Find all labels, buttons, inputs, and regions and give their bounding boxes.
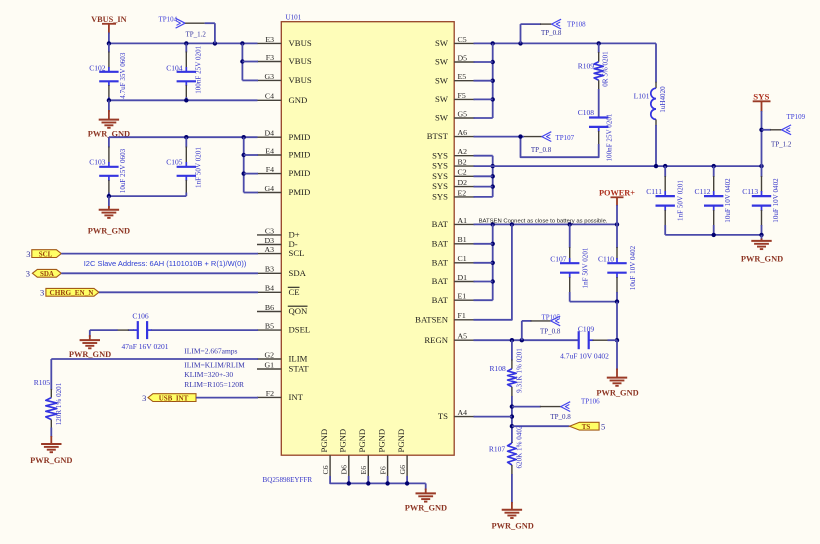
svg-text:TP_0.8: TP_0.8 xyxy=(531,146,552,154)
wire SYS bottom rail xyxy=(665,234,761,236)
wire INT xyxy=(196,397,258,399)
svg-text:R107: R107 xyxy=(489,445,506,454)
svg-text:TP106: TP106 xyxy=(581,397,600,405)
capacitor C110 xyxy=(616,224,618,248)
ground PWR_GND below C110 xyxy=(607,377,627,379)
svg-text:BATSEN Connect as close to bat: BATSEN Connect as close to battery as po… xyxy=(479,219,608,225)
svg-text:3: 3 xyxy=(26,269,30,279)
svg-text:G4: G4 xyxy=(264,184,274,193)
svg-text:KLIM=320+-30: KLIM=320+-30 xyxy=(184,370,233,379)
svg-text:BTST: BTST xyxy=(427,131,449,141)
svg-text:ILIM=KLIM/RLIM: ILIM=KLIM/RLIM xyxy=(184,360,245,369)
svg-text:G5: G5 xyxy=(458,109,468,118)
svg-text:TS: TS xyxy=(438,411,448,421)
svg-text:PWR_GND: PWR_GND xyxy=(30,456,72,465)
capacitor C102 xyxy=(108,43,110,52)
pin D3 xyxy=(257,244,281,246)
svg-text:B5: B5 xyxy=(265,322,274,331)
pin B4 xyxy=(257,291,281,293)
wire SDA xyxy=(61,272,258,274)
svg-text:A3: A3 xyxy=(264,245,274,254)
svg-text:SDA: SDA xyxy=(40,270,54,278)
resistor R108 xyxy=(511,340,513,360)
svg-text:F4: F4 xyxy=(266,165,274,174)
svg-text:SYS: SYS xyxy=(432,181,448,191)
pin B1 xyxy=(454,243,475,245)
svg-text:A6: A6 xyxy=(458,128,468,137)
pin G3 xyxy=(257,79,281,81)
svg-text:1nF 50V 0201: 1nF 50V 0201 xyxy=(582,247,590,288)
node VBUS rail junctions xyxy=(107,41,111,45)
capacitor C113 plates xyxy=(752,195,771,197)
svg-text:C4: C4 xyxy=(265,92,274,101)
ground PWR_GND below C102 xyxy=(108,100,110,112)
svg-text:G2: G2 xyxy=(264,350,274,359)
pin A3 xyxy=(257,253,281,255)
svg-text:1uH4020: 1uH4020 xyxy=(659,86,667,113)
svg-text:PGND: PGND xyxy=(319,429,329,453)
svg-text:BAT: BAT xyxy=(432,219,449,229)
svg-text:USB_INT: USB_INT xyxy=(159,394,189,402)
svg-text:G6: G6 xyxy=(398,465,407,475)
capacitor C106 plates xyxy=(137,321,139,339)
svg-text:C108: C108 xyxy=(578,108,595,117)
pin A1 xyxy=(454,223,475,225)
wire BTST xyxy=(474,136,525,138)
pin B3 xyxy=(257,272,281,274)
capacitor C112 plates xyxy=(704,195,723,197)
resistor R107 xyxy=(511,442,513,443)
svg-text:A2: A2 xyxy=(458,147,468,156)
svg-text:B4: B4 xyxy=(265,284,274,293)
pin C3 xyxy=(257,234,281,236)
pin G4 xyxy=(257,192,281,194)
svg-text:3: 3 xyxy=(142,393,146,403)
svg-text:100nF 25V 0201: 100nF 25V 0201 xyxy=(194,45,202,93)
svg-text:TP108: TP108 xyxy=(567,20,586,28)
svg-text:SYS: SYS xyxy=(432,161,448,171)
wire BAT vertical B1-E1 xyxy=(492,224,494,300)
svg-text:F3: F3 xyxy=(266,53,274,62)
svg-text:BATSEN: BATSEN xyxy=(415,314,449,324)
svg-text:9.31K 1% 0201: 9.31K 1% 0201 xyxy=(515,348,523,393)
svg-text:SW: SW xyxy=(435,57,449,67)
svg-text:C106: C106 xyxy=(132,311,149,320)
svg-text:STAT: STAT xyxy=(289,364,310,374)
svg-text:BQ25898EYFFR: BQ25898EYFFR xyxy=(263,476,313,484)
svg-text:PWR_GND: PWR_GND xyxy=(741,255,783,264)
svg-text:E5: E5 xyxy=(458,72,467,81)
testpoint TP107 xyxy=(524,136,542,138)
pin C2 xyxy=(454,175,475,177)
svg-text:C112: C112 xyxy=(695,187,711,196)
svg-text:D3: D3 xyxy=(264,236,274,245)
svg-text:PWR_GND: PWR_GND xyxy=(405,504,447,513)
svg-text:BAT: BAT xyxy=(432,257,449,267)
svg-text:SCL: SCL xyxy=(289,248,305,258)
svg-text:C3: C3 xyxy=(265,226,274,235)
pin D1 xyxy=(454,281,475,283)
svg-text:VBUS: VBUS xyxy=(289,75,312,85)
pin F4 xyxy=(257,173,281,175)
resistor R108 body xyxy=(508,369,517,387)
pin F3 xyxy=(257,61,281,63)
testpoint TP106 xyxy=(512,406,541,408)
svg-text:SW: SW xyxy=(435,113,449,123)
svg-text:SW: SW xyxy=(435,38,449,48)
svg-text:B3: B3 xyxy=(265,265,274,274)
svg-text:PGND: PGND xyxy=(376,429,386,453)
wire SW vertical to D5-G5 xyxy=(492,43,494,118)
ground PWR_GND below R107 xyxy=(511,502,513,510)
net label tag SCL xyxy=(32,250,62,258)
svg-text:C113: C113 xyxy=(742,187,758,196)
svg-text:PWR_GND: PWR_GND xyxy=(69,350,111,359)
pin F5 xyxy=(454,98,475,100)
svg-text:0R 5% 0201: 0R 5% 0201 xyxy=(602,51,610,87)
pin E2 xyxy=(454,196,475,198)
svg-text:BAT: BAT xyxy=(432,276,449,286)
svg-text:R109: R109 xyxy=(578,62,595,71)
ground PWR_GND left of C106 xyxy=(89,330,91,337)
svg-text:4.7uF 35V 0603: 4.7uF 35V 0603 xyxy=(119,52,127,99)
svg-text:C6: C6 xyxy=(321,465,330,474)
svg-text:SYS: SYS xyxy=(432,150,448,160)
pin E5 xyxy=(454,80,475,82)
svg-text:TP109: TP109 xyxy=(787,113,806,121)
capacitor C109 plates xyxy=(578,331,580,349)
svg-text:3: 3 xyxy=(40,288,44,298)
svg-text:U101: U101 xyxy=(286,14,302,22)
svg-text:RLIM=R105=120R: RLIM=R105=120R xyxy=(184,380,244,389)
pin C6 (PGND) xyxy=(329,455,331,476)
ground PWR_GND below C113 xyxy=(761,235,763,240)
wire VBUS vertical to F3 G3 xyxy=(241,43,243,80)
svg-text:G1: G1 xyxy=(264,360,274,369)
pin D4 xyxy=(257,136,281,138)
capacitor C111 plates xyxy=(656,195,675,197)
svg-text:E2: E2 xyxy=(458,188,467,197)
testpoint TP109 xyxy=(762,129,772,131)
svg-text:VBUS: VBUS xyxy=(289,38,312,48)
pin G5 xyxy=(454,117,475,119)
svg-text:PMID: PMID xyxy=(289,168,311,178)
svg-text:47nF 16V 0201: 47nF 16V 0201 xyxy=(122,342,169,351)
svg-text:TP104: TP104 xyxy=(159,16,178,24)
inductor L101 xyxy=(655,43,657,82)
svg-text:D4: D4 xyxy=(264,129,274,138)
wire PMID rail xyxy=(109,136,258,138)
svg-text:QON: QON xyxy=(289,306,309,316)
svg-text:SYS: SYS xyxy=(432,171,448,181)
capacitor C104 xyxy=(185,43,187,52)
pin E1 xyxy=(454,299,475,301)
svg-text:G3: G3 xyxy=(264,72,274,81)
svg-text:R105: R105 xyxy=(34,378,51,387)
svg-text:PWR_GND: PWR_GND xyxy=(492,521,534,530)
capacitor C105 plates xyxy=(177,166,196,168)
svg-text:C104: C104 xyxy=(166,63,183,72)
svg-text:C1: C1 xyxy=(458,254,467,263)
svg-text:SDA: SDA xyxy=(289,268,307,278)
svg-text:F2: F2 xyxy=(266,389,274,398)
svg-text:PMID: PMID xyxy=(289,150,311,160)
svg-text:E6: E6 xyxy=(359,466,368,475)
pin G2 xyxy=(257,358,281,360)
wire SCL xyxy=(61,253,258,255)
svg-text:CHRG_EN_N: CHRG_EN_N xyxy=(50,289,95,297)
svg-text:10uF 10V 0402: 10uF 10V 0402 xyxy=(629,245,637,290)
svg-text:A4: A4 xyxy=(458,408,468,417)
wire BAT rail xyxy=(474,223,618,225)
node PGND junctions xyxy=(347,481,351,485)
svg-text:B1: B1 xyxy=(458,235,467,244)
pin A4 xyxy=(454,416,475,418)
svg-text:I2C Slave Address: 6AH (110101: I2C Slave Address: 6AH (1101010B + R(1)/… xyxy=(84,259,247,268)
svg-text:TP_1.2: TP_1.2 xyxy=(771,141,792,149)
svg-text:TP_0.8: TP_0.8 xyxy=(550,413,571,421)
svg-text:4.7uF 10V 0402: 4.7uF 10V 0402 xyxy=(560,352,609,361)
capacitor C108 plates xyxy=(589,116,608,118)
svg-text:SW: SW xyxy=(435,75,449,85)
capacitor C105 xyxy=(185,137,187,147)
svg-text:VBUS: VBUS xyxy=(289,56,312,66)
svg-text:R108: R108 xyxy=(490,364,507,373)
pin E3 xyxy=(257,42,281,44)
wire PMID vertical to E4 F4 G4 xyxy=(243,137,245,192)
testpoint TP105 xyxy=(521,321,523,340)
svg-text:TP107: TP107 xyxy=(556,134,575,142)
pin D2 xyxy=(454,186,475,188)
svg-text:TP_0.8: TP_0.8 xyxy=(540,328,561,336)
svg-text:GND: GND xyxy=(289,95,308,105)
capacitor C102 plates xyxy=(99,71,118,73)
pin G6 (PGND) xyxy=(406,455,408,476)
net label tag TS xyxy=(512,425,570,427)
svg-text:D5: D5 xyxy=(458,53,468,62)
pin C4 xyxy=(257,99,281,101)
svg-text:F6: F6 xyxy=(378,466,387,474)
net label tag USB_INT xyxy=(148,394,196,402)
pin E6 (PGND) xyxy=(367,455,369,476)
svg-text:D2: D2 xyxy=(458,178,468,187)
pin A5 xyxy=(454,339,475,341)
wire to F3 xyxy=(242,61,258,63)
pin B5 xyxy=(257,329,281,331)
svg-text:E1: E1 xyxy=(458,292,467,301)
svg-text:C2: C2 xyxy=(458,168,467,177)
svg-text:ILIM: ILIM xyxy=(289,354,308,364)
svg-text:SYS: SYS xyxy=(432,192,448,202)
svg-text:C107: C107 xyxy=(550,254,567,263)
svg-text:TP105: TP105 xyxy=(542,313,561,321)
svg-text:C5: C5 xyxy=(458,35,467,44)
svg-text:BAT: BAT xyxy=(432,295,449,305)
svg-text:TP_1.2: TP_1.2 xyxy=(186,30,207,38)
capacitor C107 plates xyxy=(560,262,579,264)
wire to G3 xyxy=(242,79,258,81)
svg-text:C105: C105 xyxy=(166,158,183,167)
pin C5 xyxy=(454,42,475,44)
svg-text:C110: C110 xyxy=(598,254,614,263)
svg-text:F1: F1 xyxy=(458,311,466,320)
testpoint TP108 xyxy=(520,24,522,43)
svg-text:E3: E3 xyxy=(265,35,274,44)
wire GND rail xyxy=(109,99,258,101)
capacitor C111 xyxy=(664,166,666,177)
wire CHRG_EN_N xyxy=(99,291,258,293)
wire TS pin xyxy=(474,416,512,418)
svg-text:1nF 50V 0201: 1nF 50V 0201 xyxy=(194,147,202,188)
svg-text:C102: C102 xyxy=(89,63,106,72)
svg-text:10uF 25V 0603: 10uF 25V 0603 xyxy=(119,148,127,193)
svg-text:620K 1% 0402: 620K 1% 0402 xyxy=(515,425,523,468)
svg-text:B6: B6 xyxy=(265,303,274,312)
wire ILIM xyxy=(51,358,258,360)
ground PWR_GND below R105 xyxy=(50,436,52,444)
svg-text:DSEL: DSEL xyxy=(289,325,311,335)
svg-text:A5: A5 xyxy=(458,332,468,341)
svg-text:L101: L101 xyxy=(634,92,650,101)
svg-text:PWR_GND: PWR_GND xyxy=(88,226,130,235)
wire REGN xyxy=(474,339,579,341)
testpoint TP104 xyxy=(176,18,186,28)
ground PWR_GND below PGND pins xyxy=(425,483,427,490)
pin B2 xyxy=(454,165,475,167)
svg-text:C111: C111 xyxy=(646,187,662,196)
svg-text:PMID: PMID xyxy=(289,132,311,142)
net label tag SDA xyxy=(32,269,61,277)
capacitor C113 xyxy=(761,166,763,177)
svg-text:10uF 10V 0402: 10uF 10V 0402 xyxy=(724,178,732,223)
svg-text:F5: F5 xyxy=(458,91,466,100)
resistor R107 body xyxy=(508,443,517,465)
capacitor C107 xyxy=(569,224,571,248)
ground PWR_GND below C103 xyxy=(108,196,110,208)
wire SYS rail xyxy=(474,165,762,167)
svg-text:PGND: PGND xyxy=(396,429,406,453)
svg-text:TP_0.8: TP_0.8 xyxy=(541,29,562,37)
svg-text:D6: D6 xyxy=(340,465,349,475)
svg-text:SCL: SCL xyxy=(39,250,53,258)
wire PMID bottom rail xyxy=(109,195,186,197)
resistor R109 body xyxy=(594,62,603,80)
svg-text:10uF 10V 0402: 10uF 10V 0402 xyxy=(772,178,780,223)
svg-text:PGND: PGND xyxy=(357,429,367,453)
wire ground drop x=617 xyxy=(616,302,618,341)
wire BATSEN vertical xyxy=(474,224,512,319)
svg-text:D1: D1 xyxy=(458,273,468,282)
svg-text:VBUS_IN: VBUS_IN xyxy=(91,15,127,24)
net label tag CHRG_EN_N xyxy=(46,288,99,296)
svg-text:A1: A1 xyxy=(458,216,468,225)
svg-text:100nF 25V 0201: 100nF 25V 0201 xyxy=(606,113,614,161)
pin D5 xyxy=(454,61,475,63)
pin G1 xyxy=(257,368,281,370)
capacitor C110 plates xyxy=(607,262,626,264)
resistor R105 body xyxy=(46,398,57,420)
svg-text:B2: B2 xyxy=(458,158,467,167)
svg-text:PWR_GND: PWR_GND xyxy=(596,388,638,397)
svg-text:PGND: PGND xyxy=(338,429,348,453)
wire VBUS_IN stem xyxy=(108,33,110,44)
svg-text:BAT: BAT xyxy=(432,238,449,248)
capacitor C104 plates xyxy=(177,71,196,73)
wire SW rail xyxy=(474,42,657,44)
capacitor C112 xyxy=(713,166,715,177)
pin E4 xyxy=(257,154,281,156)
pin B6 xyxy=(257,311,281,313)
svg-text:120R 1% 0201: 120R 1% 0201 xyxy=(55,382,63,425)
svg-text:INT: INT xyxy=(289,392,304,402)
op IC U101 body xyxy=(281,22,454,456)
wire SYS vertical A2-E2 xyxy=(492,156,494,197)
svg-text:POWER+: POWER+ xyxy=(599,188,635,197)
wire TS vertical xyxy=(511,407,513,443)
pin F2 xyxy=(257,396,281,398)
wire C107 C110 bottom rail xyxy=(570,301,617,303)
svg-text:SYS: SYS xyxy=(753,92,769,102)
wire PGND rail xyxy=(330,476,426,483)
pin D6 (PGND) xyxy=(348,455,350,476)
svg-text:D+: D+ xyxy=(289,230,300,240)
svg-text:PMID: PMID xyxy=(289,187,311,197)
svg-text:5: 5 xyxy=(601,422,605,432)
svg-text:TS: TS xyxy=(582,423,591,431)
pin A2 xyxy=(454,155,475,157)
wire VBUS rail xyxy=(109,42,258,44)
svg-text:REGN: REGN xyxy=(424,335,448,345)
svg-text:SW: SW xyxy=(435,94,449,104)
svg-text:CE: CE xyxy=(289,287,300,297)
capacitor C103 xyxy=(108,137,110,147)
svg-text:1nF 50V 0201: 1nF 50V 0201 xyxy=(677,180,685,221)
resistor R109 xyxy=(598,43,600,53)
svg-text:3: 3 xyxy=(26,249,30,259)
pin C1 xyxy=(454,262,475,264)
pin F1 xyxy=(454,319,475,321)
pin A6 xyxy=(454,136,475,138)
pin F6 (PGND) xyxy=(387,455,389,476)
svg-text:E4: E4 xyxy=(265,146,274,155)
capacitor C103 plates xyxy=(99,166,118,168)
svg-text:C103: C103 xyxy=(89,158,106,167)
svg-text:ILIM=2.667amps: ILIM=2.667amps xyxy=(184,346,237,355)
svg-text:C109: C109 xyxy=(578,325,595,334)
